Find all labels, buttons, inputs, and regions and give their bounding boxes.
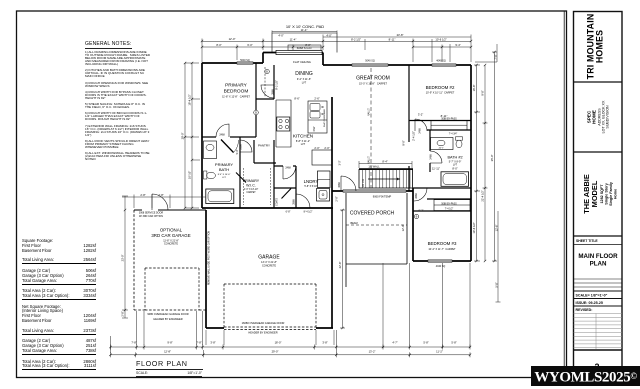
svg-text:16080 OVERHEAD GARAGE DOOR: 16080 OVERHEAD GARAGE DOOR bbox=[242, 321, 285, 325]
svg-text:16'-8": 16'-8" bbox=[472, 85, 476, 92]
svg-text:PANTRY: PANTRY bbox=[258, 144, 270, 148]
svg-text:FLAT OVERHANG: FLAT OVERHANG bbox=[323, 109, 326, 128]
svg-text:COVERED PORCH: COVERED PORCH bbox=[350, 211, 395, 217]
svg-text:10'-4" X 11'-7" CARPET: 10'-4" X 11'-7" CARPET bbox=[428, 248, 456, 251]
svg-text:5'-8": 5'-8" bbox=[423, 341, 428, 345]
svg-text:9060 FIX/TEMP: 9060 FIX/TEMP bbox=[373, 194, 392, 198]
svg-text:1/2 WALL: 1/2 WALL bbox=[368, 164, 380, 168]
svg-text:2468: 2468 bbox=[285, 166, 291, 169]
svg-text:Home: Home bbox=[614, 189, 618, 199]
svg-text:HEADER BY ENGINEER: HEADER BY ENGINEER bbox=[248, 331, 277, 335]
svg-text:8'-11": 8'-11" bbox=[441, 114, 448, 118]
svg-text:Single Story: Single Story bbox=[605, 182, 609, 204]
svg-text:4040 SQ: 4040 SQ bbox=[436, 60, 446, 63]
svg-text:FLAT CEILING: FLAT CEILING bbox=[293, 60, 311, 64]
svg-text:23'-8": 23'-8" bbox=[397, 33, 404, 37]
svg-text:BATH #2: BATH #2 bbox=[447, 156, 462, 160]
svg-text:5088 BY-PASS: 5088 BY-PASS bbox=[441, 203, 457, 206]
svg-text:22'-4 1/2": 22'-4 1/2" bbox=[481, 190, 485, 201]
svg-text:HOME: HOME bbox=[592, 110, 597, 124]
svg-text:DW: DW bbox=[312, 126, 316, 131]
svg-text:2'-8": 2'-8" bbox=[140, 193, 145, 197]
svg-text:42"V: 42"V bbox=[439, 148, 444, 150]
svg-text:HOMES: HOMES bbox=[595, 30, 605, 63]
svg-text:BEAM: BEAM bbox=[350, 222, 357, 225]
svg-text:11'-4": 11'-4" bbox=[301, 28, 308, 32]
svg-text:8'-4 1/2": 8'-4 1/2" bbox=[304, 210, 313, 213]
svg-text:CONCRETE: CONCRETE bbox=[262, 264, 276, 267]
svg-text:10'-9" X 10'-11" CARPET: 10'-9" X 10'-11" CARPET bbox=[426, 92, 455, 95]
svg-text:W.I.C.: W.I.C. bbox=[246, 183, 256, 187]
svg-text:6'-8": 6'-8" bbox=[286, 210, 291, 213]
svg-text:3'-0": 3'-0" bbox=[339, 160, 342, 165]
svg-text:PRIMARY: PRIMARY bbox=[225, 83, 248, 89]
svg-text:HEADER BY ENGINEER: HEADER BY ENGINEER bbox=[153, 317, 182, 321]
svg-text:22'-8": 22'-8" bbox=[338, 262, 342, 269]
svg-text:8'-4" X 10'-0": 8'-4" X 10'-0" bbox=[218, 174, 231, 176]
svg-text:LVT: LVT bbox=[302, 82, 307, 85]
svg-text:1282 SQFT: 1282 SQFT bbox=[600, 184, 604, 204]
svg-text:11'-4": 11'-4" bbox=[290, 37, 297, 41]
svg-text:11'-2": 11'-2" bbox=[436, 350, 443, 354]
svg-text:ISSUE: 09-25-25: ISSUE: 09-25-25 bbox=[576, 301, 603, 305]
svg-text:4040 SQ: 4040 SQ bbox=[436, 265, 446, 268]
svg-text:29'-0": 29'-0" bbox=[272, 350, 279, 354]
svg-text:8'-2 1/2": 8'-2 1/2" bbox=[351, 38, 361, 42]
svg-text:REVISED:: REVISED: bbox=[576, 308, 593, 312]
svg-text:9'-4": 9'-4" bbox=[455, 43, 460, 47]
svg-text:12'-8": 12'-8" bbox=[164, 350, 171, 354]
svg-text:2'-0": 2'-0" bbox=[335, 196, 339, 201]
svg-text:LVT: LVT bbox=[301, 143, 306, 146]
svg-text:SHEET TITLE: SHEET TITLE bbox=[576, 239, 598, 243]
svg-text:7'-8": 7'-8" bbox=[494, 54, 498, 59]
svg-text:COATS: COATS bbox=[276, 198, 279, 206]
svg-text:11'-8" X 12'-8" CARPET: 11'-8" X 12'-8" CARPET bbox=[222, 96, 250, 99]
svg-text:12'-6": 12'-6" bbox=[494, 225, 498, 232]
svg-text:CARPET: CARPET bbox=[246, 191, 256, 194]
svg-text:2868: 2868 bbox=[292, 199, 295, 205]
svg-text:10'-6 1/2": 10'-6 1/2" bbox=[435, 38, 446, 42]
svg-text:BEDROOM: BEDROOM bbox=[224, 89, 249, 95]
svg-text:12'-0": 12'-0" bbox=[229, 37, 236, 41]
svg-text:4'-0": 4'-0" bbox=[326, 34, 331, 38]
svg-text:5'-8" X 5'-10": 5'-8" X 5'-10" bbox=[304, 186, 317, 188]
svg-text:KITCHEN: KITCHEN bbox=[293, 134, 313, 139]
svg-text:2868: 2868 bbox=[271, 89, 274, 95]
svg-text:5'-8": 5'-8" bbox=[494, 282, 498, 287]
svg-text:SCALE= 1/8"=1'-0": SCALE= 1/8"=1'-0" bbox=[576, 294, 608, 298]
svg-text:GARAGE: GARAGE bbox=[258, 255, 280, 261]
svg-text:29'-0": 29'-0" bbox=[181, 133, 185, 140]
svg-text:9'-2 1/2": 9'-2 1/2" bbox=[274, 80, 278, 90]
svg-text:MODEL: MODEL bbox=[590, 180, 599, 207]
svg-text:B: B bbox=[416, 215, 418, 219]
svg-text:B: B bbox=[255, 111, 257, 115]
svg-text:8'-6": 8'-6" bbox=[294, 97, 299, 101]
svg-text:LVT: LVT bbox=[453, 163, 458, 166]
svg-text:2'-0": 2'-0" bbox=[324, 146, 329, 150]
svg-text:2'-8": 2'-8" bbox=[158, 193, 163, 197]
svg-text:2468: 2468 bbox=[429, 154, 432, 160]
svg-text:10'-6 1/2": 10'-6 1/2" bbox=[472, 222, 476, 233]
svg-text:3'-2": 3'-2" bbox=[418, 112, 423, 116]
svg-text:8'-0": 8'-0" bbox=[452, 167, 457, 171]
svg-text:3068: 3068 bbox=[338, 182, 341, 188]
svg-text:REMOVE WALL & ADD POST W/3RD C: REMOVE WALL & ADD POST W/3RD CAR OPTION bbox=[207, 231, 210, 285]
svg-text:2'-8": 2'-8" bbox=[121, 311, 125, 316]
svg-text:LNDRY: LNDRY bbox=[304, 179, 319, 184]
svg-text:6'-0": 6'-0" bbox=[247, 43, 252, 47]
svg-text:13'-2": 13'-2" bbox=[369, 350, 376, 354]
svg-text:PLAN: PLAN bbox=[590, 261, 607, 268]
svg-text:DINING: DINING bbox=[295, 71, 313, 77]
svg-text:2'-6": 2'-6" bbox=[314, 97, 319, 101]
svg-text:DN 14R: DN 14R bbox=[362, 178, 365, 187]
svg-text:7'-4 1/2": 7'-4 1/2" bbox=[445, 209, 454, 211]
svg-text:3'-8": 3'-8" bbox=[322, 341, 327, 345]
svg-text:LVT: LVT bbox=[222, 177, 227, 179]
svg-text:CONCRETE: CONCRETE bbox=[164, 243, 178, 246]
svg-text:18'-0": 18'-0" bbox=[275, 341, 282, 345]
svg-text:12'-0": 12'-0" bbox=[401, 225, 405, 232]
svg-text:11'-11": 11'-11" bbox=[432, 167, 440, 171]
svg-text:9'-8": 9'-8" bbox=[167, 341, 172, 345]
svg-text:3RD CAR GARAGE: 3RD CAR GARAGE bbox=[151, 233, 190, 238]
svg-text:8'-4": 8'-4" bbox=[382, 160, 387, 164]
svg-text:4'-3" X 13'-10": 4'-3" X 13'-10" bbox=[244, 189, 259, 191]
svg-text:19'-4 1/2": 19'-4 1/2" bbox=[188, 94, 192, 105]
svg-text:3'-8": 3'-8" bbox=[210, 341, 215, 345]
svg-text:5'-8": 5'-8" bbox=[451, 341, 456, 345]
svg-text:2468: 2468 bbox=[418, 128, 421, 134]
svg-text:7'-8": 7'-8" bbox=[196, 341, 201, 345]
svg-text:2868: 2868 bbox=[415, 193, 418, 199]
svg-text:B: B bbox=[266, 70, 268, 74]
svg-text:2'-0": 2'-0" bbox=[314, 146, 319, 150]
svg-text:VAULT: VAULT bbox=[368, 156, 371, 164]
svg-text:8'-11": 8'-11" bbox=[389, 38, 396, 42]
svg-text:8'-0": 8'-0" bbox=[305, 43, 310, 47]
svg-text:VAULT: VAULT bbox=[368, 108, 371, 116]
svg-text:2468: 2468 bbox=[219, 134, 225, 137]
svg-text:2'-4 1/2": 2'-4 1/2" bbox=[412, 131, 416, 141]
svg-text:BEDROOM #2: BEDROOM #2 bbox=[426, 85, 455, 90]
svg-text:9'-0": 9'-0" bbox=[402, 140, 406, 145]
svg-text:35'-0": 35'-0" bbox=[490, 155, 494, 162]
svg-text:7'-8": 7'-8" bbox=[131, 341, 136, 345]
svg-text:W/ 3RD CAR OPTION: W/ 3RD CAR OPTION bbox=[139, 215, 163, 218]
svg-text:5040 SQ: 5040 SQ bbox=[365, 60, 375, 63]
svg-text:BATH: BATH bbox=[219, 167, 229, 172]
svg-text:15'-0" X 18'-8" CARPET: 15'-0" X 18'-8" CARPET bbox=[359, 83, 387, 86]
svg-text:OPTIONAL: OPTIONAL bbox=[160, 228, 183, 233]
svg-text:5088 BY-PASS: 5088 BY-PASS bbox=[441, 118, 457, 121]
svg-text:MAIN FLOOR: MAIN FLOOR bbox=[578, 253, 618, 260]
svg-text:9'-2": 9'-2" bbox=[419, 210, 424, 213]
svg-text:23'-0": 23'-0" bbox=[121, 255, 125, 262]
svg-text:10'-10": 10'-10" bbox=[188, 171, 192, 179]
svg-text:SUBDIVISION: SUBDIVISION bbox=[606, 105, 610, 129]
svg-text:9'-8": 9'-8" bbox=[481, 90, 485, 95]
svg-text:GREAT ROOM: GREAT ROOM bbox=[356, 76, 390, 82]
svg-text:9080 OVERHEAD GARAGE DOOR: 9080 OVERHEAD GARAGE DOOR bbox=[147, 312, 188, 316]
svg-text:4'-0": 4'-0" bbox=[278, 34, 283, 38]
svg-text:5040 SQ: 5040 SQ bbox=[240, 59, 250, 62]
svg-text:8'-0": 8'-0" bbox=[216, 43, 221, 47]
svg-text:2068: 2068 bbox=[239, 144, 242, 150]
svg-text:BEDROOM #3: BEDROOM #3 bbox=[428, 241, 457, 246]
svg-text:4'-7": 4'-7" bbox=[392, 341, 397, 345]
svg-text:7'-4 3/4": 7'-4 3/4" bbox=[449, 133, 458, 135]
svg-text:Single Family: Single Family bbox=[609, 181, 613, 206]
